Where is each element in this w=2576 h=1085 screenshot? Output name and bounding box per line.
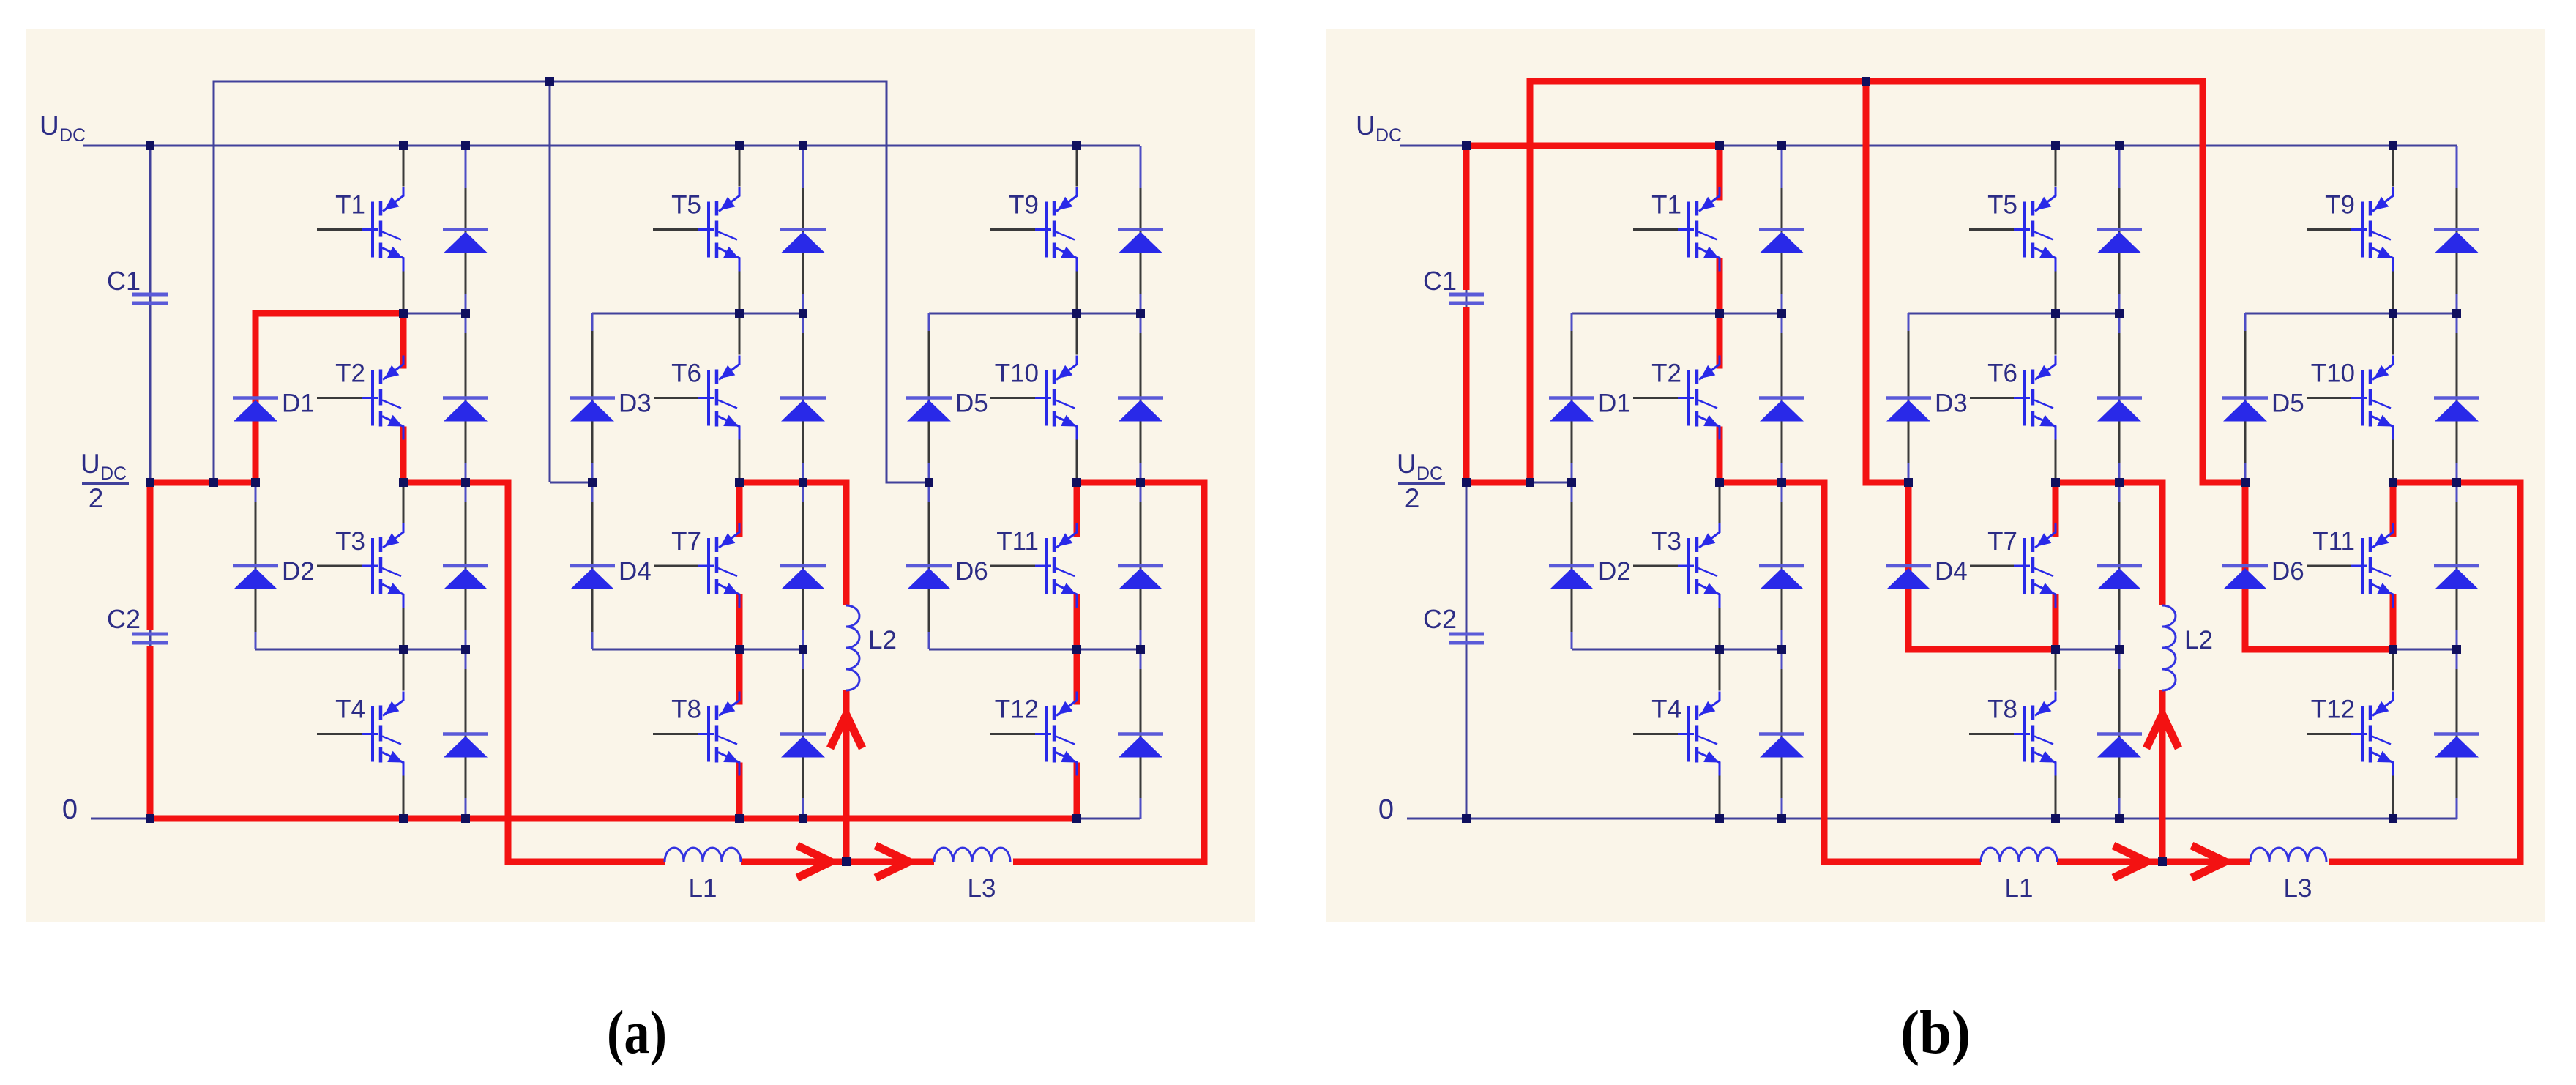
svg-text:T2: T2	[1651, 359, 1681, 388]
svg-text:DC: DC	[59, 125, 86, 146]
svg-text:D3: D3	[1935, 389, 1968, 418]
svg-text:DC: DC	[100, 463, 127, 484]
svg-text:D5: D5	[955, 389, 988, 418]
svg-text:T1: T1	[335, 191, 365, 220]
svg-text:T12: T12	[995, 696, 1039, 724]
svg-text:(a): (a)	[607, 999, 667, 1067]
svg-text:T4: T4	[1651, 696, 1681, 724]
svg-text:T5: T5	[1987, 191, 2017, 220]
svg-text:DC: DC	[1375, 125, 1402, 146]
svg-text:0: 0	[62, 794, 78, 825]
svg-text:T12: T12	[2311, 696, 2355, 724]
svg-text:C2: C2	[1423, 604, 1457, 634]
svg-text:DC: DC	[1416, 463, 1443, 484]
svg-text:D2: D2	[1598, 557, 1631, 586]
svg-text:T7: T7	[671, 527, 701, 556]
svg-text:T3: T3	[335, 527, 365, 556]
svg-text:T6: T6	[1987, 359, 2017, 388]
svg-text:U: U	[40, 111, 59, 141]
svg-text:U: U	[1356, 111, 1375, 141]
svg-text:T8: T8	[671, 696, 701, 724]
svg-text:L1: L1	[689, 874, 717, 903]
svg-text:T8: T8	[1987, 696, 2017, 724]
svg-text:L2: L2	[2184, 626, 2213, 655]
svg-text:2: 2	[1405, 483, 1420, 513]
svg-text:T1: T1	[1651, 191, 1681, 220]
svg-text:D1: D1	[1598, 389, 1631, 418]
svg-text:C1: C1	[107, 266, 141, 296]
svg-text:L3: L3	[2284, 874, 2312, 903]
svg-text:(b): (b)	[1900, 999, 1971, 1067]
svg-text:T11: T11	[2312, 527, 2355, 556]
svg-text:T9: T9	[1009, 191, 1039, 220]
svg-text:T4: T4	[335, 696, 365, 724]
svg-text:D4: D4	[619, 557, 652, 586]
svg-text:L2: L2	[868, 626, 897, 655]
svg-text:T3: T3	[1651, 527, 1681, 556]
svg-text:D3: D3	[619, 389, 652, 418]
svg-text:0: 0	[1378, 794, 1394, 825]
svg-text:D1: D1	[282, 389, 315, 418]
svg-text:2: 2	[89, 483, 104, 513]
svg-text:D2: D2	[282, 557, 315, 586]
svg-text:T6: T6	[671, 359, 701, 388]
svg-text:T7: T7	[1987, 527, 2017, 556]
svg-text:T10: T10	[995, 359, 1039, 388]
svg-text:L1: L1	[2005, 874, 2034, 903]
svg-text:L3: L3	[968, 874, 996, 903]
svg-text:D6: D6	[955, 557, 988, 586]
svg-text:C2: C2	[107, 604, 141, 634]
svg-text:D6: D6	[2271, 557, 2304, 586]
svg-text:D5: D5	[2271, 389, 2304, 418]
svg-text:T10: T10	[2311, 359, 2355, 388]
svg-text:U: U	[1397, 449, 1416, 479]
svg-text:D4: D4	[1935, 557, 1968, 586]
svg-text:C1: C1	[1423, 266, 1457, 296]
svg-text:U: U	[81, 449, 100, 479]
svg-text:T11: T11	[996, 527, 1039, 556]
svg-text:T9: T9	[2325, 191, 2355, 220]
svg-text:T2: T2	[335, 359, 365, 388]
svg-text:T5: T5	[671, 191, 701, 220]
